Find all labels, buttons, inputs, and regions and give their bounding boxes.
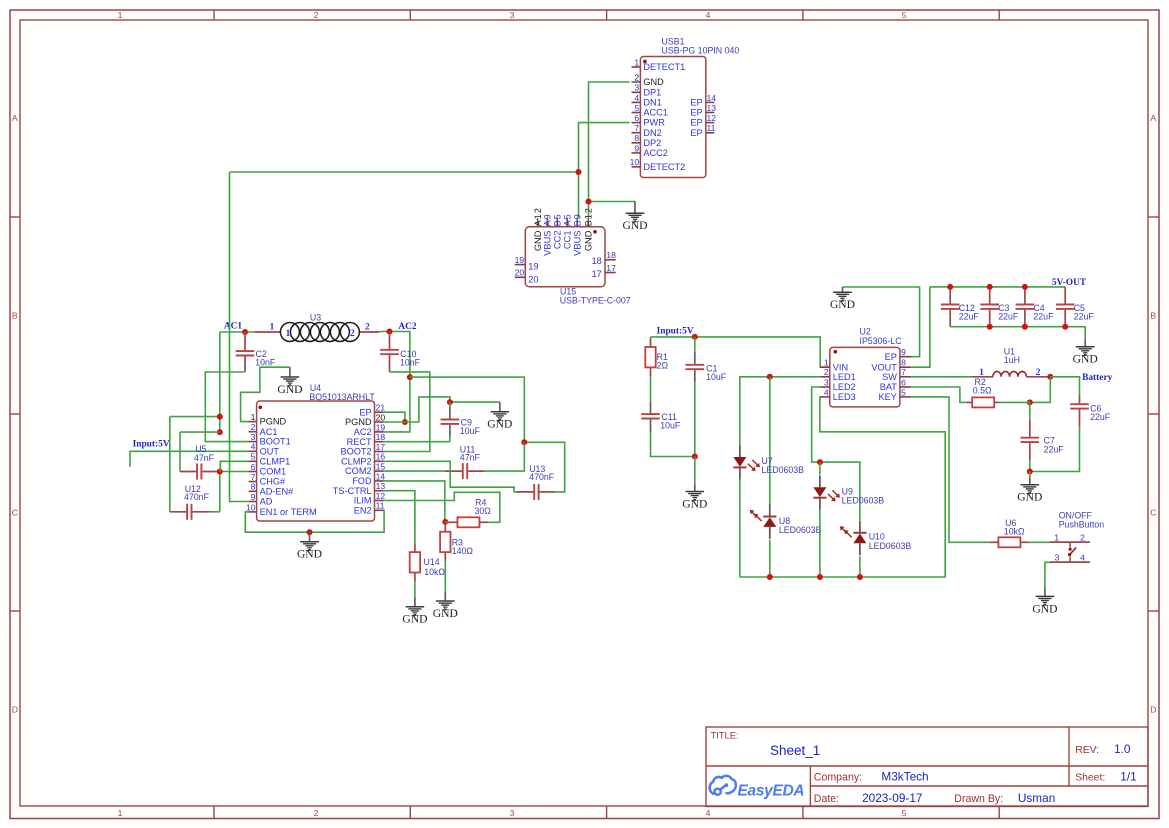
wire CLMP2 pin16 to U13 left [384,461,515,492]
svg-text:ILIM: ILIM [354,496,372,506]
svg-text:U3: U3 [310,313,321,323]
title block Drawn By value Usman [1018,791,1055,805]
svg-text:VIN: VIN [833,362,848,372]
wire U10 to LED3 rail [859,556,861,577]
capacitor C12 22uF [941,287,960,327]
svg-text:1: 1 [251,412,256,422]
U2 pin 2 LED1 [820,367,856,382]
capacitor U11 reference label [460,444,476,454]
connector USB1 body [640,57,705,178]
capacitor U5 reference label [195,444,206,454]
wire AC2 branch to U13 right [524,442,564,492]
svg-text:D: D [1150,705,1156,715]
USB1 pin 6 PWR [632,113,666,128]
junction rail U8 [767,574,773,580]
USB1 pin 2 GND [632,72,665,87]
wire AC2 branch to caps [410,377,524,442]
resistor U6 reference label [1005,518,1016,528]
U15 pin B9 VBUS [573,213,583,256]
svg-text:18: 18 [592,256,602,266]
net label Input:5V left [133,439,170,449]
svg-text:1: 1 [1054,533,1059,543]
wire EP pin9 to ground [843,287,920,357]
capacitor U12 reference label [185,484,201,494]
svg-text:7: 7 [901,367,906,377]
svg-text:Input:5V: Input:5V [657,327,694,337]
ground GND1 near USB1 [622,202,647,233]
svg-text:PWR: PWR [643,118,665,128]
svg-text:4: 4 [706,808,711,818]
resistor R1 value 2ohm [657,360,669,370]
svg-text:10kΩ: 10kΩ [1004,527,1025,537]
svg-text:10nF: 10nF [400,358,421,368]
U2 pin 4 LED3 [820,387,856,402]
svg-text:LED0603B: LED0603B [779,525,822,535]
wire VOUT to 5V-OUT rail [911,287,930,367]
wire pushbutton pin3 to ground [1045,562,1050,587]
ground GND8 above U2 [830,287,855,311]
svg-text:A: A [1150,113,1156,123]
resistor U14 value 10kohm [424,567,445,577]
svg-text:1/1: 1/1 [1120,769,1136,783]
capacitor C5 22uF [1056,287,1075,327]
svg-text:Input:5V: Input:5V [133,439,170,449]
svg-text:2: 2 [1080,533,1085,543]
svg-text:2: 2 [350,328,355,339]
junction rail U9 [817,574,823,580]
svg-text:22uF: 22uF [998,312,1019,322]
svg-text:12: 12 [707,113,717,123]
svg-text:BAT: BAT [880,382,898,392]
capacitor C6 reference label [1090,403,1101,413]
wire 5V-OUT bottom rail to ground [950,327,1085,339]
svg-text:22uF: 22uF [1033,312,1054,322]
USB1 pin 13 EP [690,103,716,118]
U15 reference label [560,287,576,297]
inductor U3 coil [255,322,380,342]
svg-text:EP: EP [690,128,702,138]
U15 pin 17 right [592,263,617,279]
svg-text:14: 14 [707,93,717,103]
svg-text:U14: U14 [424,557,440,567]
wire LED2 branch down to U9 [819,462,821,474]
LED U7 [733,445,760,480]
svg-text:12: 12 [376,491,386,501]
svg-text:GND: GND [1032,602,1057,615]
LED U8 value LED0603B [779,525,822,535]
svg-text:EP: EP [885,352,897,362]
capacitor U13 reference label [529,464,545,474]
USB1 pin 12 EP [690,113,716,128]
wire AC1 to U4 pin2 [219,332,221,432]
svg-text:COM1: COM1 [260,467,287,477]
svg-text:USB-PG 10PIN 040: USB-PG 10PIN 040 [662,46,740,56]
U4 pin 4 OUT [249,442,280,457]
capacitor C1 10uF [686,337,705,457]
svg-text:B: B [1150,311,1156,321]
wire R2 right to node [1000,401,1030,403]
capacitor C1 reference label [706,363,717,373]
net label AC1 [224,322,243,332]
capacitor C12 reference label [959,303,975,313]
svg-text:Company:: Company: [814,771,862,783]
svg-text:10kΩ: 10kΩ [424,567,445,577]
wire AC1 row to U5 corner [180,431,220,433]
wire C6 bottom to C7 bottom [1030,455,1080,472]
svg-text:CLMP1: CLMP1 [260,456,291,466]
resistor R2 0.5ohm [967,397,1000,407]
junction LED1 U8 branch [767,374,773,380]
svg-text:DN2: DN2 [643,128,661,138]
svg-text:IP5306-LC: IP5306-LC [860,336,903,346]
capacitor C7 reference label [1044,436,1055,446]
junction U1 out Battery node [1047,374,1053,380]
svg-text:5: 5 [902,10,907,20]
capacitor U13 470nF [515,484,555,500]
title block Sheet label [1075,772,1105,783]
svg-text:RECT: RECT [347,437,372,447]
U4 pin 7 CHG# [249,472,286,487]
inductor U3 reference label [310,313,321,323]
wire C2 bottom to BOOT1 [205,372,248,442]
LED U9 reference label [842,486,853,496]
svg-text:4: 4 [1080,552,1085,562]
capacitor C2 value 10nF [255,358,276,368]
capacitor C3 reference label [998,303,1009,313]
junction GND wire [586,199,592,205]
title block Sheet value 1/1 [1120,769,1136,783]
junction COM1 node [217,469,223,475]
svg-text:3: 3 [634,83,639,93]
svg-text:CHG#: CHG# [260,477,286,487]
svg-text:ACC1: ACC1 [643,108,668,118]
IC U4 reference label [310,383,321,393]
junction 5V-OUT top rail [1022,284,1028,290]
inductor U1 reference label [1004,347,1015,357]
svg-text:10nF: 10nF [255,358,276,368]
frame column ticks top [214,10,999,20]
svg-text:AD-EN#: AD-EN# [260,486,295,496]
svg-text:VBUS: VBUS [543,231,553,256]
svg-text:GND: GND [584,230,594,251]
USB1 pin 3 DP1 [632,83,662,98]
U4 pin 1 PGND [249,412,287,427]
svg-text:Usman: Usman [1018,791,1055,805]
svg-text:7: 7 [634,123,639,133]
U4 pin 8 AD-EN# [249,482,295,497]
resistor U6 value 10kohm [1004,527,1025,537]
wire down to U12 left [169,417,171,512]
junction AC2 branch [407,374,413,380]
svg-text:6: 6 [251,462,256,472]
resistor R1 reference label [657,352,668,362]
svg-text:DN1: DN1 [643,98,661,108]
svg-text:3: 3 [251,432,256,442]
junction AC1 branch A [217,414,223,420]
frame column numbers top [118,10,907,20]
title block frame [706,727,1148,807]
junction AC2 node [387,329,393,335]
LED U8 [750,505,777,539]
resistor R2 value 0.5ohm [973,386,992,396]
junction U4 pin2 AC1 [217,429,223,435]
U2 pin 1 VIN [820,358,848,373]
junction FOD R3 R4 [442,519,448,525]
capacitor U13 value 470nF [529,472,555,482]
svg-text:20: 20 [376,412,386,422]
wire USB1 PWR pin6 to USB-C B9 [579,123,630,219]
wire TS-CTRL pin13 down to U14 [384,491,415,543]
ground GND5 below R3 [433,592,458,620]
ground GND2 near C2 [277,367,302,396]
junction C7 bottom ground node [1027,469,1033,475]
svg-text:M3kTech: M3kTech [881,769,928,783]
svg-text:BOOT2: BOOT2 [340,447,371,457]
svg-text:20: 20 [515,268,525,278]
wire EP pin21 down to PGND20 [384,412,405,422]
wire EN1 EN2 ground run [245,510,384,532]
svg-text:19: 19 [515,255,525,265]
svg-text:KEY: KEY [879,392,897,402]
svg-text:18: 18 [376,432,386,442]
svg-text:A9: A9 [543,213,553,226]
svg-text:DETECT2: DETECT2 [643,162,685,172]
svg-text:47nF: 47nF [460,452,481,462]
wire to ground near USB [589,201,636,203]
wire FOD pin14 down to R3 R4 node [384,481,445,522]
U4 pin 21 EP [359,403,385,418]
capacitor C10 [380,332,399,372]
junction C1 bottom [692,454,698,460]
svg-text:19: 19 [528,262,538,272]
capacitor C4 reference label [1033,303,1044,313]
wire CLMP1 to COM1 node [220,461,248,471]
svg-text:3: 3 [824,377,829,387]
svg-text:9: 9 [901,347,906,357]
wire Input:5V to U2 VIN [651,337,830,367]
svg-text:BOOT1: BOOT1 [260,437,291,447]
svg-text:1: 1 [118,10,123,20]
wire AC2 to U4 pin19 [379,332,410,432]
U4 pin 13 TS-CTRL [333,481,386,496]
svg-text:CC1: CC1 [563,231,573,250]
svg-text:22uF: 22uF [959,312,980,322]
svg-text:GND: GND [533,230,543,251]
U4 pin 2 AC1 [249,422,278,437]
IC U2 body [830,347,900,407]
U15 pin A5 CC1 [563,213,573,249]
svg-text:10uF: 10uF [706,372,727,382]
svg-text:8: 8 [634,133,639,143]
capacitor C9 reference label [461,417,472,427]
capacitor C11 reference label [661,412,677,422]
svg-text:140Ω: 140Ω [452,546,474,556]
svg-text:22uF: 22uF [1044,444,1065,454]
svg-text:6: 6 [634,113,639,123]
svg-text:VBUS: VBUS [573,231,583,256]
capacitor C2 reference label [256,349,267,359]
net label 5V-OUT [1052,278,1087,288]
U4 pin 16 CLMP2 [341,452,385,467]
LED U7 value LED0603B [762,465,805,475]
capacitor C7 22uF [1021,402,1040,471]
junction 5V-OUT top rail [987,284,993,290]
svg-text:CC2: CC2 [553,231,563,250]
ground GND3 below U4 [297,532,322,560]
svg-text:GND: GND [433,607,458,620]
IC U4 value BQ51013ARHLT [309,392,375,402]
svg-text:EN1 or TERM: EN1 or TERM [260,507,317,517]
USB1 pin 8 DP2 [632,133,662,148]
svg-text:C: C [1150,508,1156,518]
wire Battery node down to R2 C7 [1030,377,1051,403]
junction ground run [307,529,313,535]
U15 pin B12 GND [584,207,594,251]
svg-text:2: 2 [314,10,319,20]
svg-text:VOUT: VOUT [871,362,897,372]
capacitor C2 [236,332,255,372]
svg-text:16: 16 [376,452,386,462]
U4 pin 18 RECT [347,432,386,447]
frame column ticks bottom [214,806,999,819]
svg-text:GND: GND [643,77,664,87]
svg-text:5: 5 [901,387,906,397]
connector USB1 value label USB-PG 10PIN 040 [662,46,740,56]
IC U2 value IP5306-LC [860,336,903,346]
svg-text:PGND: PGND [260,417,287,427]
capacitor C6 value 22uF [1090,412,1111,422]
svg-text:470nF: 470nF [184,492,210,502]
svg-text:SW: SW [882,372,897,382]
wire C9 bottom to RECT pin18 [384,441,450,443]
svg-text:LED2: LED2 [833,382,856,392]
capacitor U11 value 47nF [460,452,481,462]
svg-text:15: 15 [376,462,386,472]
svg-text:EP: EP [690,118,702,128]
svg-text:1: 1 [824,358,829,368]
capacitor C5 value 22uF [1074,312,1095,322]
svg-text:5: 5 [902,808,907,818]
wire U12 right up to COM1 [220,472,249,512]
USB1 pin 4 DN1 [632,93,662,108]
svg-text:2023-09-17: 2023-09-17 [862,791,922,805]
ground GND6 below U14 [402,597,427,626]
capacitor C4 value 22uF [1033,312,1054,322]
title block TITLE label [711,730,739,741]
resistor U6 10kohm [989,537,1030,547]
capacitor C7 value 22uF [1044,444,1065,454]
svg-text:17: 17 [376,442,386,452]
capacitor C10 value 10nF [400,358,421,368]
svg-text:1uH: 1uH [1004,355,1020,365]
capacitor U12 470nF [170,504,220,520]
resistor R4 30ohm [445,517,491,527]
svg-text:ACC2: ACC2 [643,148,668,158]
svg-text:Sheet:: Sheet: [1075,772,1105,783]
svg-text:GND: GND [402,613,427,626]
svg-text:10uF: 10uF [660,421,681,431]
U2 pin 6 BAT [880,377,911,392]
resistor R2 reference label [975,377,986,387]
svg-text:47nF: 47nF [194,453,215,463]
svg-text:D: D [12,705,18,715]
inductor U1 coil [971,367,1050,378]
capacitor C9 10uF [441,402,460,442]
inductor U1 value 1uH [1004,355,1020,365]
U4 pin 14 FOD [352,471,385,486]
svg-text:2: 2 [251,422,256,432]
junction 5V-OUT bottom rail [1062,324,1068,330]
svg-text:3: 3 [510,10,515,20]
svg-text:10: 10 [630,157,640,167]
capacitor C4 22uF [1016,287,1035,327]
U4 pin 17 BOOT2 [340,442,385,457]
svg-text:2: 2 [824,367,829,377]
LED U10 value LED0603B [869,541,912,551]
wire U4 PGND pin1 to ground [241,367,290,421]
title block Company label [814,771,862,783]
svg-text:Battery: Battery [1082,373,1113,383]
svg-text:9: 9 [634,143,639,153]
junction 5V-OUT top rail [947,284,953,290]
junction AC2 caps node [521,439,527,445]
U15 pin 20 left [515,268,539,285]
junction LED2 U9 branch [817,459,823,465]
svg-text:2Ω: 2Ω [657,360,669,370]
resistor R1 2ohm [645,337,655,378]
svg-text:1.0: 1.0 [1114,742,1131,756]
ground GND10 below C7 [1017,478,1042,504]
svg-text:B5: B5 [553,213,563,226]
U4 pin 12 ILIM [354,491,386,506]
svg-text:9: 9 [251,492,256,502]
frame column numbers bottom [118,808,907,818]
wire U5 left vertical [179,432,181,471]
svg-text:11: 11 [707,123,716,133]
svg-text:GND: GND [1017,491,1042,504]
title block Company value M3kTech [881,769,928,783]
capacitor U5 47nF [180,464,220,480]
svg-text:21: 21 [376,403,386,413]
svg-text:REV:: REV: [1075,745,1099,756]
svg-text:1: 1 [286,328,291,339]
svg-text:11: 11 [376,501,385,511]
svg-text:GND: GND [622,219,647,232]
resistor U14 reference label [424,557,440,567]
LED U7 reference label [762,456,773,466]
junction pin20 net [402,419,408,425]
wire C10 bottom to BOOT2 [384,372,430,452]
svg-text:4: 4 [824,387,829,397]
svg-text:19: 19 [376,422,386,432]
svg-text:U2: U2 [860,326,871,336]
svg-text:USB-TYPE-C-007: USB-TYPE-C-007 [560,296,631,306]
wire LED2 to U9 U10 [812,387,860,521]
svg-text:B9: B9 [573,213,583,226]
svg-text:LED0603B: LED0603B [762,465,805,475]
LED U10 reference label [869,532,885,542]
svg-text:A12: A12 [533,207,543,226]
svg-text:3: 3 [510,808,515,818]
svg-text:A: A [12,113,18,123]
junction 5V-OUT bottom rail [1022,324,1028,330]
wire down to U11 right [485,442,525,471]
wire USB1 GND pin2 to USB-C B12 [589,82,630,218]
resistor U14 10kohm [410,542,420,582]
wire U9 to LED3 rail [819,509,821,577]
U15 value label USB-TYPE-C-007 [560,296,631,306]
frame row ticks right [1148,217,1159,611]
